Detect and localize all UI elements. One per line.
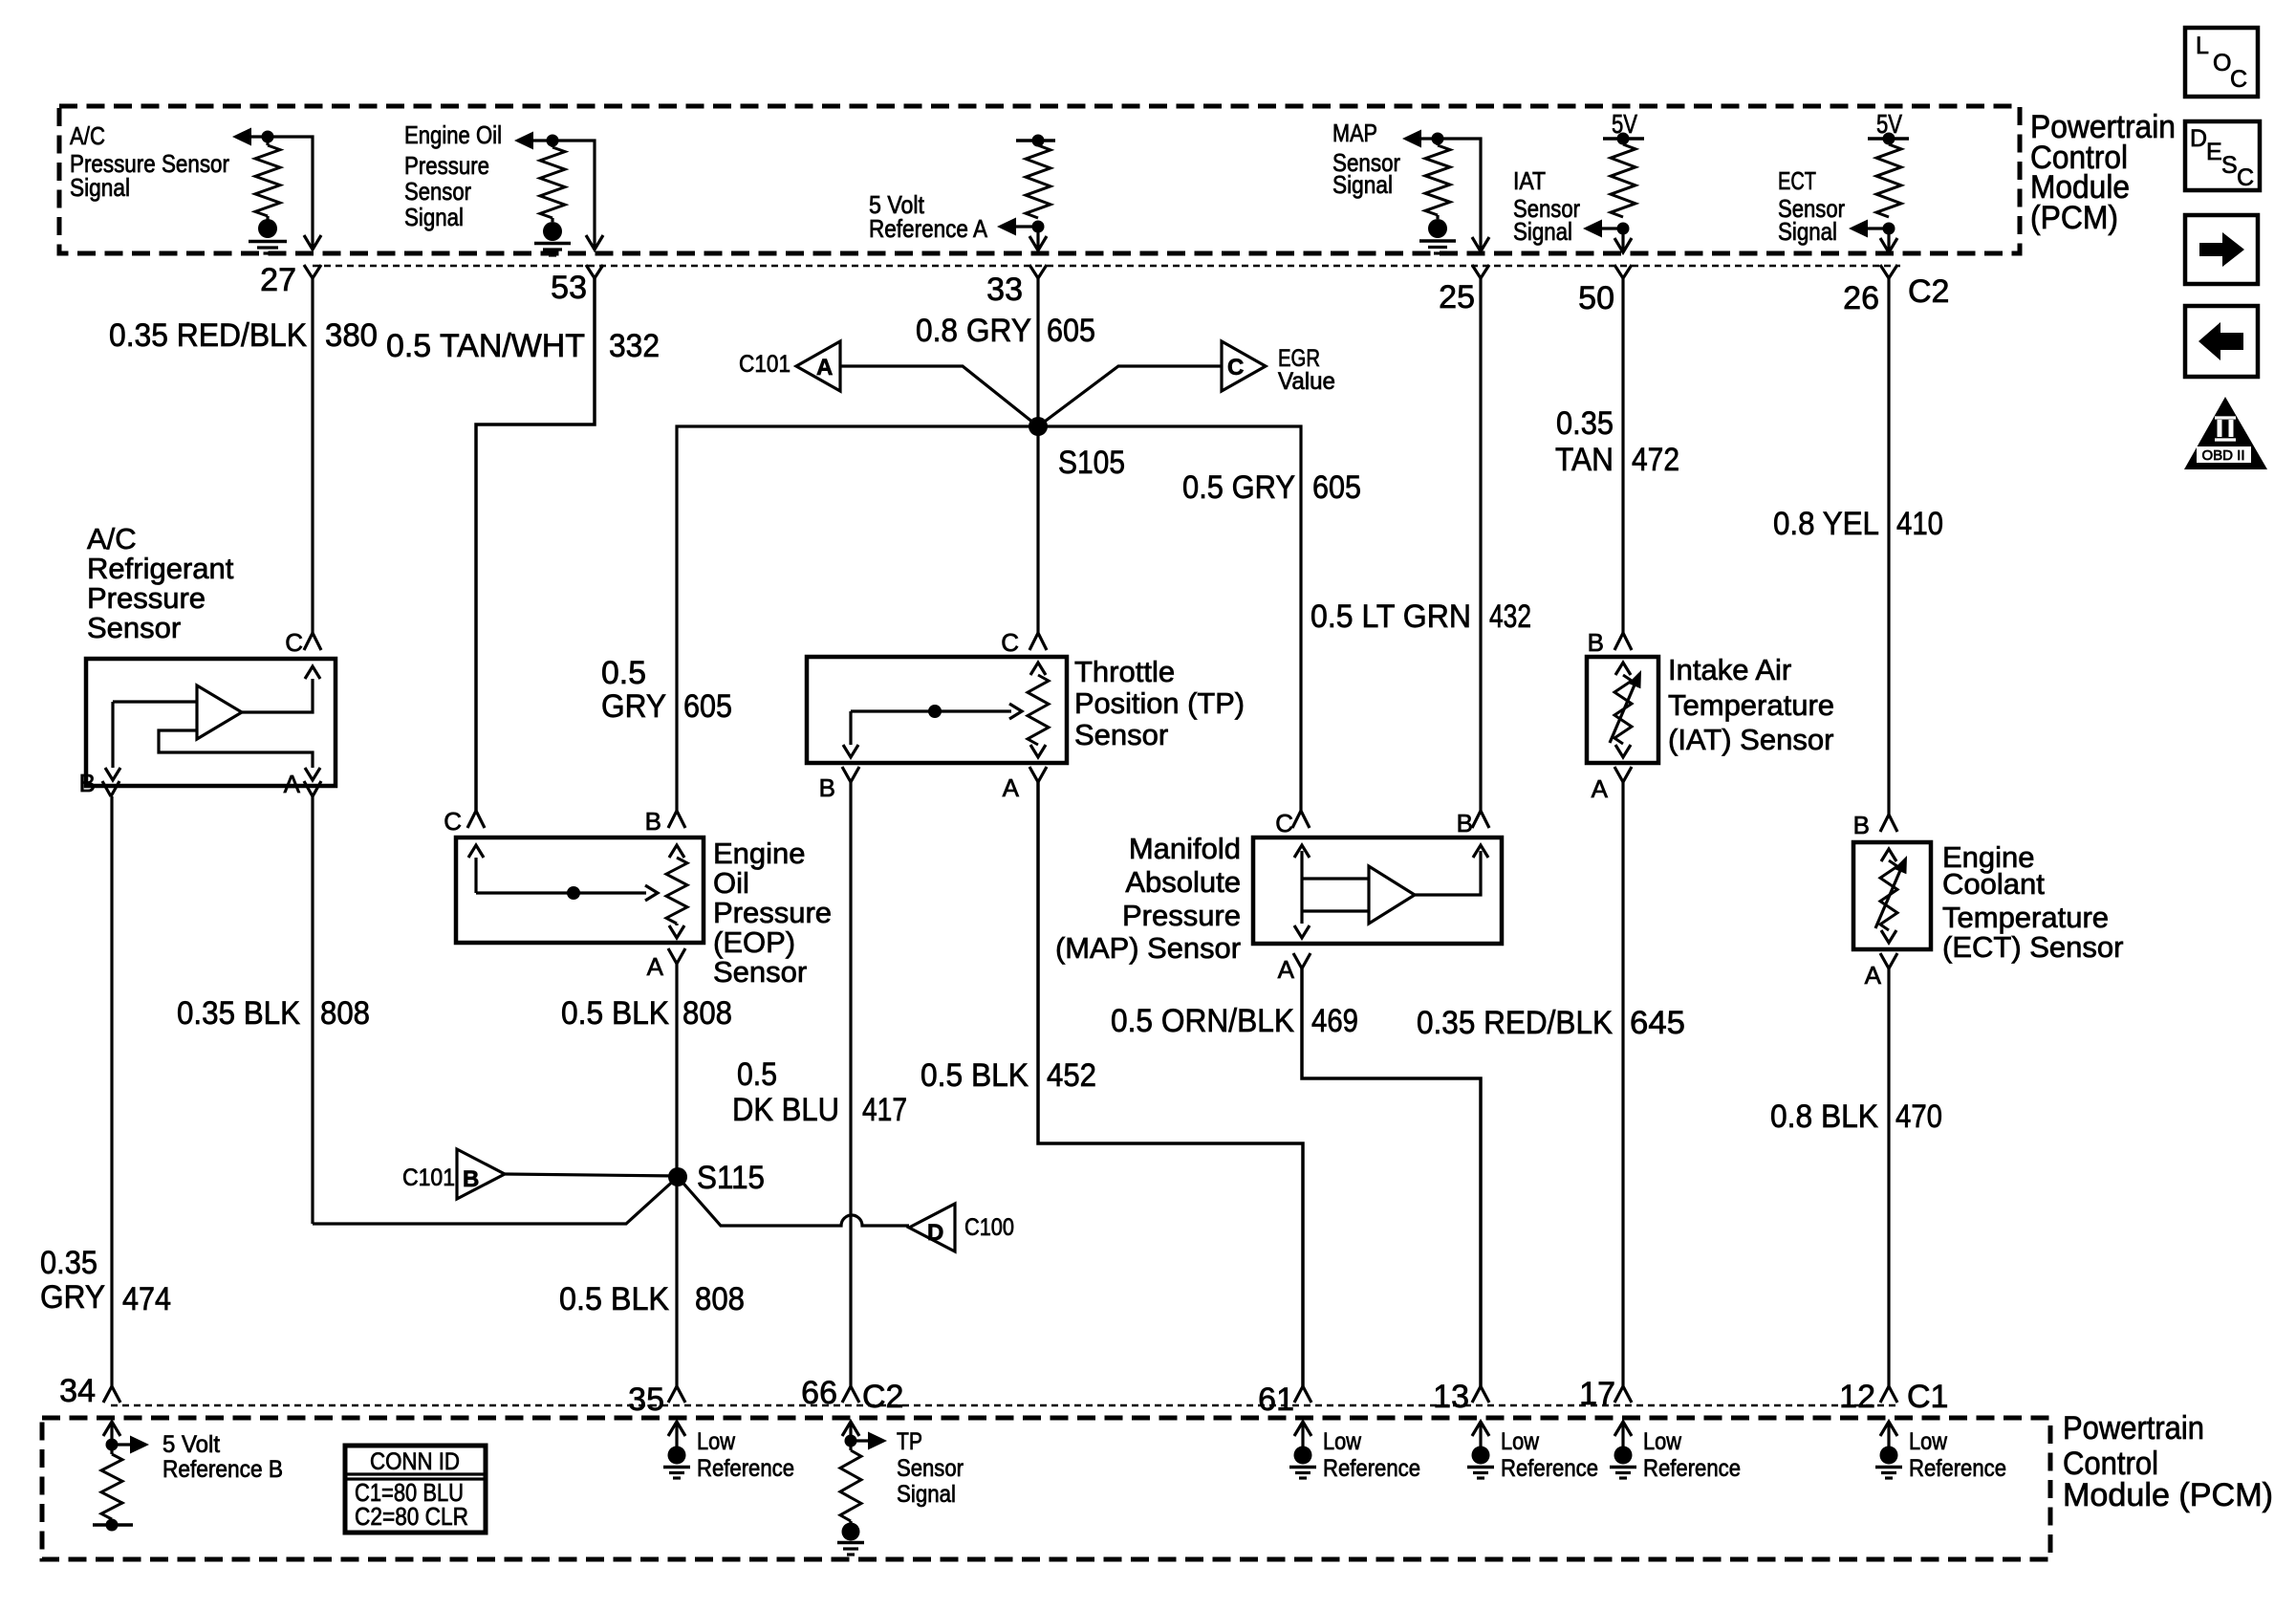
A/C sensor pin C connector (304, 633, 321, 650)
svg-text:469: 469 (1311, 1003, 1358, 1039)
wire 410 (pin 26 to ECT B) (1887, 278, 1890, 815)
resistor (5 volt reference A) (1026, 145, 1051, 218)
svg-text:B: B (1588, 628, 1604, 657)
wire 605 (pin 33 to S105) (1036, 278, 1039, 426)
wire pin 25 (PCM internal) (1438, 139, 1481, 249)
svg-text:27: 27 (260, 262, 296, 298)
svg-text:Sensor: Sensor (87, 611, 181, 644)
svg-text:Low: Low (1323, 1428, 1362, 1455)
svg-text:Intake Air: Intake Air (1668, 653, 1791, 686)
junction dot (MAP signal) (1432, 133, 1444, 145)
wire 645 (IAT A to pin 17) (1621, 782, 1624, 1386)
svg-text:25: 25 (1439, 279, 1475, 315)
arrow to ECT sensor signal label (1866, 227, 1889, 229)
svg-text:Reference A: Reference A (869, 214, 988, 243)
svg-text:C101: C101 (739, 351, 791, 378)
svg-text:0.35: 0.35 (1556, 405, 1614, 442)
DESC icon box (2185, 121, 2260, 190)
svg-text:Module (PCM): Module (PCM) (2063, 1477, 2273, 1513)
wire 417 (TP B to pin 66) (849, 782, 852, 1386)
svg-text:0.5 BLK: 0.5 BLK (561, 995, 669, 1032)
5 volt reference B structure (103, 1422, 120, 1436)
svg-text:Engine: Engine (713, 837, 806, 870)
pin 53 (586, 265, 603, 278)
wire (S115 left branch) (313, 1177, 678, 1224)
svg-text:0.35 RED/BLK: 0.35 RED/BLK (1417, 1005, 1613, 1041)
svg-text:50: 50 (1578, 280, 1614, 316)
pin 66 (842, 1386, 859, 1403)
svg-text:808: 808 (695, 1281, 745, 1317)
svg-text:0.35 BLK: 0.35 BLK (177, 995, 300, 1032)
svg-text:Refrigerant: Refrigerant (87, 552, 234, 585)
svg-text:808: 808 (682, 995, 732, 1032)
wire 605 (S105 to TP C) (1036, 426, 1039, 633)
svg-text:Manifold: Manifold (1129, 832, 1241, 865)
TP sensor pin C connector (1029, 633, 1047, 650)
low reference (pin 17) (1614, 1422, 1632, 1436)
thermistor (ECT) (1881, 849, 1896, 861)
svg-text:(MAP) Sensor: (MAP) Sensor (1055, 931, 1241, 965)
svg-text:Throttle: Throttle (1074, 655, 1175, 688)
CONN ID table (345, 1446, 486, 1533)
svg-text:12: 12 (1839, 1379, 1875, 1415)
left arrow icon box (2185, 306, 2258, 377)
wire pin 27 (PCM internal) (268, 137, 313, 247)
svg-text:605: 605 (1047, 313, 1095, 349)
wire (A/C sensor feedback) (159, 730, 313, 768)
svg-text:A/C: A/C (87, 522, 137, 555)
svg-text:Reference: Reference (1501, 1455, 1598, 1482)
pin 33 (1029, 265, 1047, 278)
svg-text:E: E (2206, 139, 2222, 165)
svg-text:0.5: 0.5 (737, 1056, 777, 1093)
connector line C2 (top) (313, 265, 1900, 268)
svg-text:605: 605 (1312, 469, 1361, 506)
svg-text:Powertrain: Powertrain (2063, 1410, 2204, 1447)
IAT pin B connector (1614, 633, 1632, 650)
svg-text:Reference: Reference (697, 1455, 794, 1482)
wire pin 53 (PCM internal) (552, 141, 595, 247)
TP sensor pin A connector (1029, 767, 1047, 782)
ground (MAP resistor) (1428, 219, 1447, 238)
wire (EOP C leg) (474, 858, 477, 893)
ground (engine oil resistor) (543, 222, 562, 241)
svg-text:410: 410 (1896, 506, 1943, 542)
wire 808 (EOP A through S115 to pin 35) (675, 964, 678, 1386)
resistor (EOP) (669, 845, 684, 858)
svg-text:472: 472 (1632, 442, 1679, 478)
svg-text:Low: Low (697, 1428, 736, 1455)
svg-text:A: A (816, 355, 833, 381)
svg-text:Low: Low (1909, 1428, 1948, 1455)
svg-text:MAP: MAP (1332, 119, 1377, 147)
svg-text:Signal: Signal (70, 173, 130, 202)
svg-text:C100: C100 (964, 1214, 1014, 1241)
wire (A/C sensor output) (242, 679, 313, 712)
svg-text:0.5: 0.5 (601, 655, 646, 691)
svg-text:O: O (2213, 50, 2231, 76)
wire 380 (pin 27 to A/C sensor C) (311, 278, 314, 633)
junction dot (5 volt reference A) (1032, 221, 1045, 233)
wire 472 (pin 50 to IAT B) (1621, 278, 1624, 633)
wire pin 26 (PCM internal) (1887, 228, 1890, 250)
svg-text:Low: Low (1643, 1428, 1682, 1455)
low reference (pin 13) (1472, 1422, 1489, 1436)
svg-text:Low: Low (1501, 1428, 1540, 1455)
svg-text:Temperature: Temperature (1942, 901, 2109, 934)
svg-text:A: A (1592, 774, 1609, 803)
svg-text:66: 66 (801, 1375, 837, 1411)
svg-text:Pressure: Pressure (404, 151, 489, 180)
pin 61 (1294, 1386, 1311, 1403)
svg-text:OBD II: OBD II (2201, 447, 2244, 464)
low reference (pin 35) (668, 1422, 685, 1436)
svg-text:Sensor: Sensor (404, 177, 471, 206)
arrow to A/C pressure sensor signal (232, 128, 251, 146)
svg-text:S105: S105 (1058, 445, 1125, 481)
arrow to 5 volt reference A label (1015, 225, 1038, 228)
LOC icon box (2185, 28, 2258, 97)
svg-text:C: C (2230, 66, 2247, 93)
wire 452 (TP A to pin 61) (1038, 782, 1303, 1386)
svg-text:0.5 GRY: 0.5 GRY (1182, 469, 1295, 506)
connector line C1 (bottom) (111, 1404, 1897, 1407)
pin 12 (1880, 1386, 1897, 1403)
svg-text:IAT: IAT (1513, 166, 1546, 195)
low reference (pin 12) (1880, 1422, 1897, 1436)
power rail (pin 33 resistor) (1016, 139, 1055, 142)
svg-text:Pressure: Pressure (1122, 899, 1241, 932)
svg-text:C101: C101 (402, 1164, 455, 1191)
TP sensor pin B connector (842, 767, 859, 782)
power rail (ECT resistor) (1868, 137, 1909, 141)
svg-text:A: A (1278, 955, 1295, 984)
svg-text:GRY: GRY (40, 1279, 105, 1316)
ground (A/C signal resistor) (258, 219, 277, 238)
svg-text:13: 13 (1433, 1379, 1469, 1415)
svg-text:0.5 BLK: 0.5 BLK (559, 1281, 669, 1317)
svg-text:D: D (927, 1220, 943, 1246)
svg-text:B: B (1853, 811, 1870, 839)
IAT sensor box (1587, 657, 1658, 763)
arrow to engine oil signal label (514, 132, 533, 150)
svg-text:B: B (1457, 809, 1473, 838)
wire (A/C sensor input) (113, 702, 197, 768)
svg-text:C1: C1 (1907, 1379, 1948, 1415)
svg-text:(EOP): (EOP) (713, 925, 795, 959)
ECT pin A connector (1880, 953, 1897, 968)
svg-text:Signal: Signal (1778, 217, 1837, 246)
resistor (A/C signal pull-down) (266, 137, 269, 145)
svg-text:17: 17 (1579, 1376, 1615, 1412)
svg-text:0.8 GRY: 0.8 GRY (916, 313, 1031, 349)
S105 splice (1029, 417, 1048, 436)
svg-text:432: 432 (1489, 598, 1531, 635)
svg-text:0.5 LT GRN: 0.5 LT GRN (1310, 598, 1471, 635)
svg-text:33: 33 (986, 272, 1023, 308)
pin 13 (1472, 1386, 1489, 1403)
svg-text:0.5 ORN/BLK: 0.5 ORN/BLK (1111, 1003, 1294, 1039)
connector flag D (C100) (909, 1204, 955, 1251)
svg-text:C: C (444, 807, 462, 836)
connector flag A (C101) (840, 366, 1038, 426)
svg-text:Reference: Reference (1909, 1455, 2006, 1482)
wire 470 (ECT A to pin 12) (1887, 968, 1890, 1386)
svg-text:C: C (1001, 628, 1019, 657)
svg-text:Position (TP): Position (TP) (1074, 686, 1245, 720)
pin 17 (1614, 1386, 1632, 1403)
svg-text:Reference: Reference (1643, 1455, 1741, 1482)
svg-text:0.35 RED/BLK: 0.35 RED/BLK (109, 317, 307, 354)
wire 469 (MAP A to pin 13) (1302, 968, 1481, 1386)
svg-text:GRY: GRY (601, 688, 666, 725)
wire (S105 left arm to EOP B) (677, 426, 1038, 811)
IAT pin A connector (1614, 767, 1632, 782)
svg-text:A: A (1003, 773, 1020, 802)
wire 474 (A/C B to pin 34) (110, 796, 113, 1386)
svg-text:(ECT) Sensor: (ECT) Sensor (1942, 930, 2123, 964)
svg-text:Signal: Signal (897, 1481, 956, 1508)
svg-text:474: 474 (122, 1281, 171, 1317)
junction dot (ECT signal) (1883, 223, 1895, 235)
pin 26 (1880, 265, 1897, 278)
wire 332 (pin 53 to EOP C) (476, 278, 595, 811)
svg-text:C: C (285, 628, 303, 657)
right arrow icon box (2185, 215, 2258, 284)
svg-text:Sensor: Sensor (713, 955, 807, 989)
power rail (IAT resistor) (1603, 137, 1644, 141)
resistor (TP) (1030, 663, 1046, 675)
svg-text:605: 605 (683, 688, 732, 725)
junction dot (EOP wiper) (567, 886, 580, 900)
svg-text:TAN: TAN (1555, 442, 1614, 478)
pin 34 (103, 1386, 120, 1403)
svg-text:0.8 BLK: 0.8 BLK (1770, 1099, 1878, 1135)
resistor (IAT sensor signal) (1611, 144, 1635, 217)
junction dot (TP wiper) (928, 705, 942, 718)
svg-text:(PCM): (PCM) (2030, 200, 2118, 236)
svg-text:417: 417 (862, 1092, 907, 1128)
PCM bottom dashed box (42, 1418, 2050, 1559)
junction dot (A/C signal) (262, 131, 274, 143)
svg-text:CONN ID: CONN ID (370, 1448, 460, 1475)
svg-text:0.5 BLK: 0.5 BLK (921, 1057, 1029, 1094)
wire (S115 right branch to C100) (678, 1177, 909, 1226)
svg-text:(IAT) Sensor: (IAT) Sensor (1668, 723, 1833, 756)
wire (S105 right arm to MAP C) (1038, 426, 1301, 811)
wiper arrow (TP) (851, 709, 1011, 712)
wire 432 (pin 25 to MAP B) (1479, 278, 1482, 811)
svg-text:Reference: Reference (1323, 1455, 1420, 1482)
svg-text:B: B (463, 1166, 479, 1192)
svg-text:S115: S115 (697, 1160, 765, 1196)
MAP pin C connector (1292, 811, 1310, 828)
arrow to MAP sensor signal label (1402, 130, 1421, 148)
resistor (MAP signal pull-down) (1436, 139, 1439, 145)
svg-text:A: A (647, 952, 664, 981)
PCM top dashed box (59, 106, 2020, 253)
low reference (pin 61) (1294, 1422, 1311, 1436)
svg-text:Sensor: Sensor (897, 1455, 964, 1482)
ECT sensor box (1853, 842, 1931, 949)
EOP sensor pin A connector (668, 948, 685, 964)
svg-text:D: D (2190, 125, 2207, 152)
thermistor (IAT) (1615, 663, 1631, 675)
resistor (ECT sensor signal) (1876, 144, 1901, 217)
MAP pin A connector (1293, 953, 1310, 968)
A/C sensor pin B connector (102, 781, 119, 796)
pin 27 (304, 265, 321, 278)
svg-text:Reference B: Reference B (162, 1456, 283, 1483)
A/C refrigerant pressure sensor box (86, 659, 336, 786)
svg-text:C: C (1227, 355, 1244, 381)
svg-text:ECT: ECT (1778, 166, 1816, 195)
svg-text:0.8 YEL: 0.8 YEL (1773, 506, 1879, 542)
svg-text:Pressure: Pressure (87, 581, 206, 615)
ECT pin B connector (1880, 815, 1897, 832)
svg-text:34: 34 (59, 1373, 96, 1409)
op-amp U1 (A/C sensor) (197, 685, 242, 739)
MAP sensor box (1253, 838, 1502, 944)
wire pin 33 (PCM internal) (1036, 227, 1039, 248)
svg-text:470: 470 (1895, 1099, 1942, 1135)
svg-text:C: C (1275, 809, 1293, 838)
EOP sensor pin B connector (668, 811, 685, 828)
svg-text:Sensor: Sensor (1074, 718, 1168, 751)
svg-text:DK BLU: DK BLU (732, 1092, 839, 1128)
svg-text:C2=80 CLR: C2=80 CLR (355, 1502, 468, 1531)
svg-text:645: 645 (1630, 1005, 1685, 1041)
wire pin 50 (PCM internal) (1621, 228, 1624, 250)
svg-text:TP: TP (897, 1428, 922, 1455)
pin 35 (668, 1386, 685, 1403)
svg-text:61: 61 (1258, 1382, 1294, 1418)
svg-text:380: 380 (325, 317, 378, 354)
arrow to IAT sensor signal label (1600, 227, 1623, 229)
svg-text:C2: C2 (1908, 273, 1949, 310)
svg-text:0.5 TAN/WHT: 0.5 TAN/WHT (386, 328, 585, 364)
connector flag C (EGR) (1038, 366, 1222, 426)
pin 50 (1614, 265, 1632, 278)
S115 splice (668, 1167, 687, 1186)
svg-text:35: 35 (628, 1382, 664, 1418)
svg-text:5 Volt: 5 Volt (162, 1431, 220, 1458)
svg-text:452: 452 (1047, 1057, 1096, 1094)
svg-text:26: 26 (1843, 280, 1879, 316)
junction dot (engine oil signal) (547, 135, 559, 147)
connector flag B (C101) (457, 1149, 505, 1199)
svg-text:A: A (1865, 961, 1882, 990)
resistor (engine oil signal pull-down) (551, 141, 553, 147)
wire 808 (A/C A to S115) (311, 796, 314, 1224)
svg-text:B: B (79, 769, 96, 797)
svg-text:53: 53 (551, 270, 587, 306)
svg-text:C2: C2 (862, 1379, 903, 1415)
junction dot (IAT signal) (1617, 223, 1630, 235)
svg-text:Signal: Signal (1332, 170, 1393, 199)
svg-text:Temperature: Temperature (1668, 688, 1834, 722)
wire (MAP C leg) (1300, 851, 1303, 924)
wiper arrow (EOP) (476, 891, 646, 894)
A/C sensor pin A connector (304, 781, 321, 796)
svg-text:L: L (2196, 33, 2209, 59)
svg-text:Value: Value (1278, 368, 1335, 395)
svg-text:A: A (284, 770, 301, 798)
svg-text:B: B (819, 773, 835, 802)
svg-text:Engine Oil: Engine Oil (404, 120, 502, 149)
EOP sensor box (456, 838, 704, 943)
pin 25 (1472, 265, 1489, 278)
svg-text:C: C (2237, 164, 2254, 191)
OBD II triangle icon (2184, 397, 2267, 469)
svg-text:Oil: Oil (713, 866, 749, 900)
svg-text:808: 808 (320, 995, 370, 1032)
wire (TP B leg) (849, 711, 852, 745)
TP sensor box (807, 657, 1067, 763)
svg-text:Signal: Signal (404, 203, 464, 231)
svg-text:Signal: Signal (1513, 217, 1572, 246)
wire (MAP output) (1415, 851, 1481, 895)
svg-text:A/C: A/C (70, 121, 105, 150)
TP sensor signal structure (pin 66) (842, 1422, 859, 1436)
svg-text:332: 332 (609, 328, 660, 364)
MAP pin B connector (1472, 811, 1489, 828)
EOP sensor pin C connector (467, 811, 485, 828)
svg-text:Pressure: Pressure (713, 896, 832, 929)
op-amp U2 (MAP) (1369, 866, 1415, 924)
svg-text:Absolute: Absolute (1125, 865, 1241, 899)
svg-text:B: B (645, 807, 661, 836)
svg-text:S: S (2221, 152, 2238, 179)
svg-text:Coolant: Coolant (1942, 867, 2045, 901)
svg-text:0.35: 0.35 (40, 1245, 97, 1281)
